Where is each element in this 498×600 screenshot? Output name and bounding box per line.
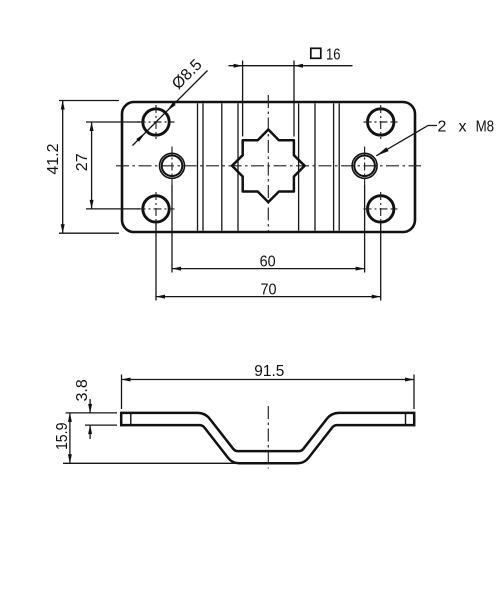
dimension square 16 (229, 46, 353, 136)
svg-text:15.9: 15.9 (54, 422, 71, 450)
profile right end cap (413, 412, 416, 427)
label 2 x M8 leader (376, 118, 494, 156)
groove line 3 (221, 103, 223, 230)
groove line 4 (237, 103, 239, 230)
groove line 2 (202, 103, 204, 230)
groove line 8 (338, 103, 340, 230)
tapped hole M8 right (352, 147, 377, 186)
star spline hole (232, 130, 305, 203)
vertical centerline (267, 95, 269, 231)
horizontal centerline (116, 165, 421, 167)
profile bottom surface (121, 425, 414, 463)
profile right end mark (405, 413, 407, 425)
dimension 60 (172, 185, 365, 273)
dimension 27 (74, 122, 140, 209)
svg-text:16: 16 (326, 46, 341, 63)
svg-text:3.8: 3.8 (74, 379, 91, 401)
dimension 41.2 (45, 101, 119, 234)
svg-text:Ø8.5: Ø8.5 (169, 56, 206, 93)
svg-text:x: x (459, 118, 467, 135)
tapped hole M8 left (160, 147, 185, 186)
dimension 91.5 (122, 363, 415, 409)
svg-text:41.2: 41.2 (45, 143, 62, 174)
groove line 5 (298, 103, 300, 230)
profile centerline (267, 406, 269, 469)
plate outline (122, 102, 415, 232)
profile left end mark (130, 413, 132, 425)
hole top-right (364, 105, 398, 139)
svg-text:2: 2 (438, 118, 447, 135)
hole bottom-right (364, 192, 398, 225)
groove line 6 (314, 103, 316, 230)
hole bottom-left (138, 192, 175, 225)
dimension 15.9 (54, 413, 236, 463)
svg-text:60: 60 (260, 253, 276, 270)
dimension 70 (156, 222, 381, 301)
svg-text:M8: M8 (476, 118, 495, 135)
dimension 3.8 (66, 379, 117, 439)
dimension diameter 8.5 leader (133, 56, 208, 145)
svg-text:27: 27 (74, 153, 91, 171)
profile left end cap (120, 412, 123, 427)
profile top surface (121, 413, 414, 451)
svg-text:70: 70 (261, 281, 277, 298)
groove line 7 (333, 103, 335, 230)
hole top-left (138, 105, 175, 139)
groove line 1 (197, 103, 199, 230)
svg-text:91.5: 91.5 (254, 363, 284, 380)
